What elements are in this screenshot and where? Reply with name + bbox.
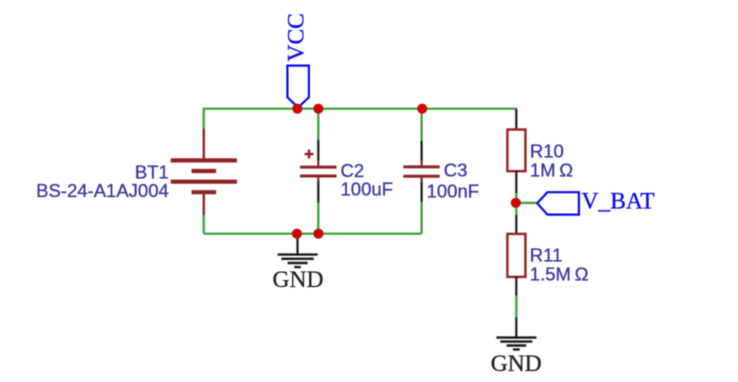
- label R11 value 1.5MΩ: [530, 264, 589, 285]
- resistor R10: [507, 109, 525, 193]
- junction node V_BAT divider: [511, 198, 521, 208]
- resistor R11: [507, 215, 525, 296]
- svg-text:R10: R10: [530, 141, 564, 162]
- svg-text:C3: C3: [444, 160, 468, 181]
- svg-text:VCC: VCC: [284, 13, 310, 61]
- wire node to V_BAT port: [516, 202, 538, 204]
- power port VCC: [284, 13, 310, 107]
- svg-text:GND: GND: [273, 267, 324, 293]
- svg-text:R11: R11: [530, 245, 563, 266]
- wire node to R11: [515, 203, 517, 216]
- capacitor C3: [403, 141, 439, 202]
- svg-text:1.5M Ω: 1.5M Ω: [530, 264, 589, 285]
- wire C2 top drop: [317, 109, 319, 141]
- wire R11 bottom: [515, 295, 517, 319]
- wire bottom rail: [204, 233, 422, 235]
- capacitor C2: [300, 140, 336, 203]
- svg-text:GND: GND: [491, 351, 542, 377]
- ground GND1 (bottom rail): [273, 234, 324, 293]
- wire R10 bottom to node: [515, 193, 517, 203]
- label BT1 value BS-24-A1AJ004: [36, 180, 169, 201]
- svg-text:1M Ω: 1M Ω: [530, 160, 573, 181]
- junction at C3 / top rail: [417, 104, 427, 114]
- label C3 value 100nF: [427, 180, 479, 201]
- wire battery bottom stub: [203, 215, 205, 234]
- label R10 designator: [530, 141, 564, 162]
- net label V_BAT: [537, 189, 654, 215]
- label R10 value 1MΩ: [530, 160, 573, 181]
- svg-text:100nF: 100nF: [427, 180, 479, 201]
- label C2 value 100uF: [341, 178, 393, 199]
- battery BT1: [171, 129, 237, 216]
- junction at GND1 / bottom rail: [292, 229, 302, 239]
- label R11 designator: [530, 245, 563, 266]
- svg-text:V_BAT: V_BAT: [582, 189, 655, 215]
- wire top rail: [204, 108, 517, 110]
- wire C3 bottom riser: [421, 202, 423, 234]
- label C3 designator: [444, 160, 468, 181]
- svg-text:100uF: 100uF: [341, 178, 393, 199]
- wire C3 top drop: [421, 109, 423, 142]
- label BT1 designator: [135, 161, 169, 182]
- ground GND2 (below R11): [491, 318, 542, 377]
- label C2 designator: [341, 160, 365, 181]
- wire battery top stub: [203, 108, 205, 130]
- junction at VCC / top rail: [292, 104, 302, 114]
- svg-text:BS-24-A1AJ004: BS-24-A1AJ004: [36, 180, 169, 201]
- junction at C2 / top rail: [313, 104, 323, 114]
- junction at C2 / bottom rail: [313, 229, 323, 239]
- wire C2 bottom drop: [317, 202, 319, 234]
